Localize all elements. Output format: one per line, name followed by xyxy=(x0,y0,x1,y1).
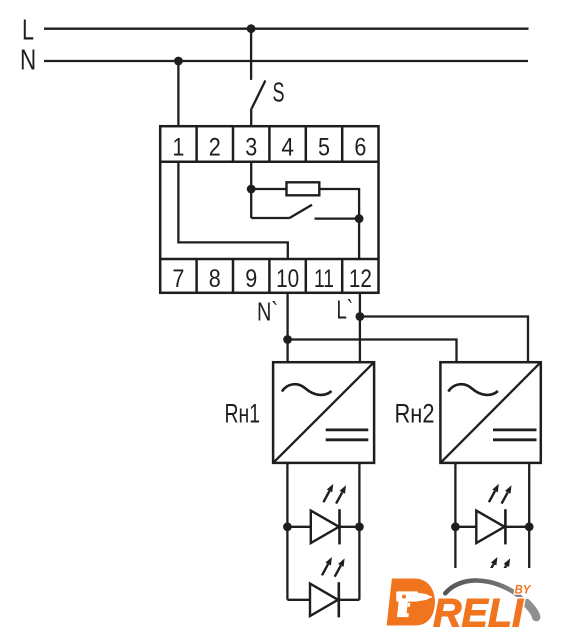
wire switch to terminal 3 xyxy=(250,108,252,126)
LED D1 rung wires xyxy=(287,526,310,528)
LED D3 triangle xyxy=(476,511,504,543)
wire node B to terminal 12 xyxy=(358,219,360,259)
relay terminal block outline xyxy=(160,126,378,293)
converter U1 DC lines xyxy=(326,428,369,431)
relay contact K: fixed side xyxy=(315,217,360,219)
svg-text:BY: BY xyxy=(515,585,532,597)
LED D2 rung wires xyxy=(287,599,310,601)
wire L to switch xyxy=(250,29,252,80)
resistor R xyxy=(287,182,320,195)
node D3 right xyxy=(525,522,534,531)
svg-text:8: 8 xyxy=(209,265,221,293)
svg-text:7: 7 xyxy=(172,265,184,293)
converter U2 DC lines xyxy=(493,428,537,431)
node D1 right xyxy=(355,522,364,531)
svg-text:2: 2 xyxy=(209,134,221,162)
LED D1 triangle xyxy=(311,511,339,543)
LED D1 arrows xyxy=(323,484,346,504)
wire terminal 12 to converter U1 (net L`) xyxy=(359,293,361,362)
wire resistor to node B xyxy=(319,189,359,219)
LED D3 rung wires xyxy=(455,526,476,528)
svg-text:N: N xyxy=(20,45,36,77)
wire terminal3 to node A xyxy=(250,162,252,189)
svg-text:3: 3 xyxy=(245,134,257,162)
wire U2 output left rail xyxy=(454,463,456,600)
node D3 left xyxy=(451,522,460,531)
converter U1 diagonal xyxy=(273,362,374,463)
node N` xyxy=(283,335,292,344)
wire N to terminal 1 xyxy=(177,61,179,126)
svg-text:11: 11 xyxy=(314,265,334,293)
node L-switch junction xyxy=(247,24,256,33)
wire L` branch to converter U2 xyxy=(360,317,528,363)
svg-text:N`: N` xyxy=(257,297,278,327)
converter U2 box xyxy=(440,362,540,463)
converter U2 diagonal xyxy=(440,362,540,463)
svg-text:5: 5 xyxy=(318,134,330,162)
svg-text:S: S xyxy=(273,77,285,108)
relay contact K: moving side xyxy=(251,217,289,219)
wire N bus xyxy=(44,60,528,62)
LED D2 triangle xyxy=(310,584,338,616)
node D1 left xyxy=(283,522,292,531)
svg-text:4: 4 xyxy=(281,134,294,162)
pin numbers 7-12 xyxy=(172,265,372,293)
svg-text:1: 1 xyxy=(172,134,184,162)
converter U1 AC tilde xyxy=(282,384,332,395)
switch S blade xyxy=(252,81,266,109)
node A xyxy=(247,185,256,194)
terminal dividers bottom row xyxy=(197,259,343,293)
wire L bus xyxy=(44,28,529,30)
terminal dividers top row xyxy=(197,126,343,162)
LED D4 partial arrows xyxy=(488,557,511,577)
logo white backdrop xyxy=(378,568,564,640)
node N-terminal1 junction xyxy=(174,57,183,66)
svg-text:L: L xyxy=(22,15,34,47)
wire U1 output left rail xyxy=(286,463,288,600)
svg-text:L`: L` xyxy=(337,295,354,325)
converter U2 AC tilde xyxy=(448,384,498,395)
relay contact K: blade xyxy=(290,205,313,218)
svg-text:Rн1: Rн1 xyxy=(225,399,261,429)
wire node A to resistor xyxy=(251,188,286,190)
wire U2 output right rail xyxy=(528,463,530,600)
svg-text:RELI: RELI xyxy=(433,592,524,636)
node L` xyxy=(356,312,365,321)
svg-text:12: 12 xyxy=(349,265,372,293)
node B xyxy=(355,214,364,223)
terminal row separator bottom xyxy=(160,258,378,261)
LED D1 cathode bar xyxy=(338,509,341,544)
LED D2 cathode bar xyxy=(337,582,340,617)
svg-text:9: 9 xyxy=(245,265,257,293)
wire U1 output right rail xyxy=(358,463,360,600)
relay contact K: wire from node A down xyxy=(250,189,252,218)
pin numbers 1-6 xyxy=(172,134,366,162)
svg-text:6: 6 xyxy=(354,134,366,162)
LED D3 arrows xyxy=(489,484,512,504)
LED D2 arrows xyxy=(322,557,345,577)
logo text RELI xyxy=(433,592,524,636)
terminal row separator top xyxy=(160,161,378,164)
wire terminal 10 to converter U1 (net N`) xyxy=(286,293,288,362)
svg-text:Rн2: Rн2 xyxy=(395,399,435,429)
wire N` branch to converter U2 xyxy=(288,340,457,363)
converter U1 box xyxy=(273,362,374,463)
svg-text:10: 10 xyxy=(276,265,299,293)
logo swoosh xyxy=(445,580,536,617)
wire terminal1 to terminal10 internal xyxy=(178,162,287,259)
LED D3 cathode bar xyxy=(504,509,507,544)
logo letter D with drill xyxy=(387,579,435,626)
